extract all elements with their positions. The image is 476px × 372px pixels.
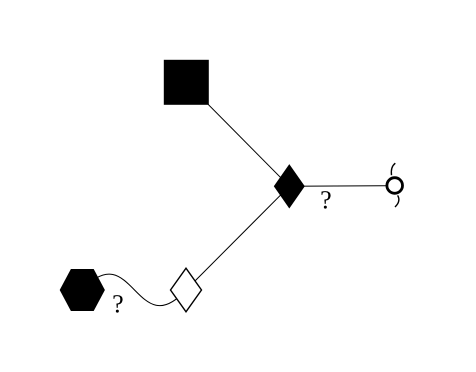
open diamond — [171, 268, 202, 312]
reducing end circle — [387, 178, 403, 194]
wire square to filled diamond — [186, 82, 289, 186]
reducing end squiggle — [391, 163, 399, 207]
filled hexagon — [60, 269, 105, 311]
linkage label ? at hexagon — [113, 295, 122, 313]
wire wavy curve hexagon to open diamond — [82, 274, 186, 306]
wire filled diamond to reducing-end circle — [289, 185, 394, 188]
Neu5Ac filled diamond — [274, 164, 305, 208]
wire filled diamond to open diamond — [186, 186, 289, 290]
linkage label ? at diamond — [321, 191, 330, 209]
GalNAc filled square — [164, 60, 209, 105]
